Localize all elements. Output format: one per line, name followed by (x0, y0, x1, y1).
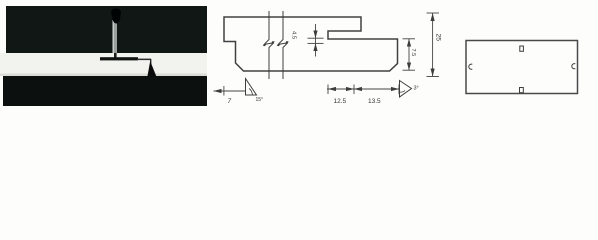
T-profile stem in white band (114, 53, 117, 59)
dimension 7 tick (223, 86, 225, 96)
dimension 7 left: line (214, 90, 246, 92)
plan mark left-middle (469, 64, 473, 69)
joint step-down line (150, 59, 151, 64)
dimension 7 arrowhead (214, 89, 222, 93)
T-profile flange bar (100, 57, 138, 60)
slope triangle left 15deg (246, 79, 257, 96)
dimension 4.5 ticks (308, 37, 324, 39)
thin joint line right of T (137, 59, 151, 61)
svg-text:7: 7 (228, 98, 232, 105)
hanger rod (light) in dark panel (113, 20, 118, 53)
photo white band lower shadow (0, 74, 207, 77)
dimension 25 overall height: line (432, 13, 434, 77)
chain arrow left-out (328, 87, 336, 91)
hanger bolt head bulb (111, 9, 121, 24)
slope triangle left angle arc (249, 89, 253, 96)
chain arrow mid-right (346, 87, 354, 91)
drawing group (224, 11, 398, 79)
chain tick right (398, 85, 400, 95)
right plan rectangle (466, 41, 578, 94)
svg-text:25: 25 (435, 34, 442, 42)
plan mark bottom-center (520, 88, 524, 93)
chain tick middle (353, 85, 355, 95)
hanger rod highlight edge (113, 20, 114, 53)
bottom chain dimension line (327, 88, 399, 90)
chain tick left (327, 85, 329, 95)
svg-text:15°: 15° (256, 97, 264, 103)
dimension 25 ticks (427, 12, 440, 14)
chain arrow mid-left (354, 87, 362, 91)
dimension 4.5 arrowheads (313, 31, 317, 39)
chain arrow right-out (391, 87, 399, 91)
svg-text:7.5: 7.5 (410, 49, 416, 57)
photo bottom dark panel (3, 76, 207, 106)
photo: ceiling cross-section photograph background (0, 0, 598, 115)
dimension 7.5 arrowheads (407, 39, 411, 47)
slope triangle right angle arc (400, 91, 406, 93)
dimension 4.5 slot height: line (315, 24, 317, 57)
photo top dark panel (6, 6, 207, 53)
dimension 7.5 right tab: line (408, 39, 410, 70)
svg-text:12.5: 12.5 (334, 98, 347, 105)
svg-text:4.5: 4.5 (290, 31, 296, 39)
slope triangle right 3deg (400, 81, 412, 98)
clip wedge blob (147, 61, 156, 77)
profile outline (224, 17, 398, 71)
dimension 7.5 ticks (403, 38, 416, 40)
svg-text:3°: 3° (414, 86, 419, 92)
plan mark top-center (520, 46, 524, 51)
plan mark right-middle (572, 64, 576, 69)
break line left (263, 11, 276, 79)
svg-text:13.5: 13.5 (368, 98, 381, 105)
photo white plasterboard band (0, 53, 207, 76)
break line right (277, 11, 290, 79)
dimension 25 arrowheads (431, 13, 435, 21)
dimension texts (228, 31, 442, 105)
